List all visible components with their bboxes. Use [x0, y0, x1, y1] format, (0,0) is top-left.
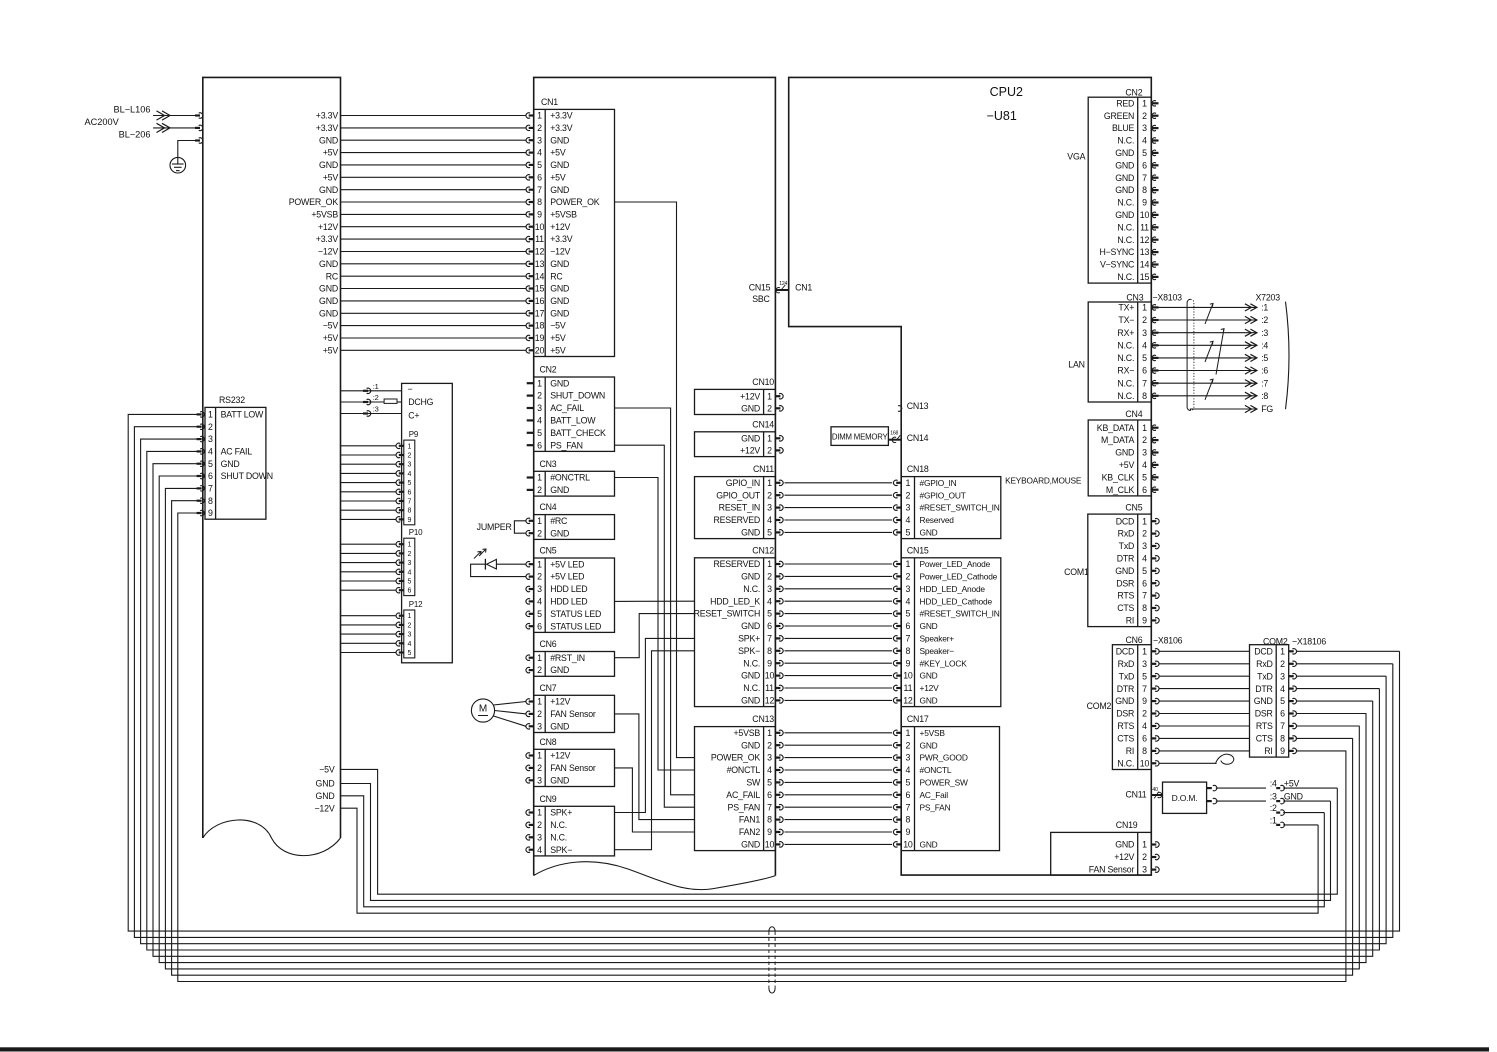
LED light arrows	[474, 552, 481, 559]
fan motor M1	[471, 699, 494, 722]
svg-text:2: 2	[537, 528, 542, 538]
svg-text:RTS: RTS	[1117, 591, 1134, 601]
svg-text:GND: GND	[741, 840, 760, 850]
svg-text:RESERVED: RESERVED	[713, 559, 760, 569]
connector CN1 (SBC main power)	[534, 109, 615, 356]
connector CN4 keyboard mouse (CPU2)	[1088, 420, 1151, 496]
connector RS232	[205, 407, 266, 519]
svg-text:DTR: DTR	[1117, 554, 1134, 564]
svg-text:GND: GND	[1284, 792, 1303, 802]
svg-text:GND: GND	[741, 696, 760, 706]
svg-text:BATT_CHECK: BATT_CHECK	[550, 428, 606, 438]
svg-text:2: 2	[767, 572, 772, 582]
svg-text:RxD: RxD	[1256, 659, 1273, 669]
svg-text:5: 5	[906, 528, 911, 538]
svg-text:GND: GND	[1115, 696, 1134, 706]
svg-text:3: 3	[1142, 865, 1147, 875]
svg-text:14: 14	[535, 271, 545, 281]
connector CN17 (CPU2 power control)	[901, 727, 999, 851]
svg-text:GND: GND	[920, 528, 938, 538]
svg-text:2: 2	[1142, 529, 1147, 539]
wire CN13 pin 4 to CN17 pin 4	[775, 769, 780, 771]
svg-text:BL−L106: BL−L106	[113, 105, 150, 115]
svg-text:+5VSB: +5VSB	[311, 210, 338, 220]
wire CN12 pin 4 to CN15 pin 4	[775, 600, 780, 602]
wire CN11 pin 4 to CN18 pin 4	[775, 519, 780, 521]
wire PSU to CN1 pin 16 (GND)	[341, 300, 527, 302]
svg-text:#ONCTRL: #ONCTRL	[550, 473, 590, 483]
svg-text:M_DATA: M_DATA	[1101, 435, 1135, 445]
svg-text:4: 4	[1142, 340, 1147, 350]
wire CN13 pin 1 to CN17 pin 1	[775, 732, 780, 734]
svg-text:FAN Sensor: FAN Sensor	[550, 709, 596, 719]
svg-text:POWER_OK: POWER_OK	[550, 197, 600, 207]
svg-text:STATUS LED: STATUS LED	[550, 609, 601, 619]
svg-text:+5V LED: +5V LED	[550, 572, 584, 582]
svg-text:7: 7	[906, 634, 911, 644]
wire CN11 pin 2 to CN18 pin 2	[775, 494, 780, 496]
svg-text:GND: GND	[920, 740, 938, 750]
svg-text:−: −	[408, 384, 413, 394]
wire CN9 pin1 SPK+ to CN12 pin7	[615, 638, 695, 812]
svg-text:CTS: CTS	[1117, 734, 1134, 744]
svg-text:2: 2	[537, 709, 542, 719]
wire LAN pin 3 to X7203 :3	[1151, 332, 1158, 334]
svg-text:N.C.: N.C.	[743, 658, 760, 668]
svg-text:GND: GND	[550, 185, 569, 195]
svg-text:PS_FAN: PS_FAN	[550, 440, 583, 450]
connector CN4 (SBC #RC)	[534, 515, 615, 540]
pigtail :2	[1276, 811, 1280, 813]
svg-text:9: 9	[407, 517, 411, 524]
svg-text:−X8103: −X8103	[1153, 293, 1183, 303]
svg-text:6: 6	[1142, 578, 1147, 588]
svg-text:1: 1	[1142, 646, 1147, 656]
svg-text:#GPIO_OUT: #GPIO_OUT	[920, 490, 966, 500]
svg-text:6: 6	[407, 489, 411, 496]
svg-text:COM2: COM2	[1087, 701, 1112, 711]
wire PSU to P10 pin 1	[341, 543, 396, 545]
svg-text:POWER_OK: POWER_OK	[289, 197, 339, 207]
svg-text:6: 6	[407, 588, 411, 595]
wire LAN FG shield	[1191, 409, 1257, 411]
bracket X7203	[1286, 302, 1290, 410]
svg-text:TX−: TX−	[1118, 315, 1134, 325]
svg-text:H−SYNC: H−SYNC	[1099, 247, 1135, 257]
wire LAN pin 1 to X7203 :1	[1151, 306, 1158, 308]
svg-text:COM1: COM1	[1064, 567, 1089, 577]
wire CN7 pin2 FAN Sensor to CN13 pin8 FAN1	[615, 714, 695, 820]
svg-text:3: 3	[1142, 448, 1147, 458]
svg-text:8: 8	[1142, 391, 1147, 401]
svg-text:9: 9	[208, 508, 213, 518]
wire RS232 pin 8 loop	[172, 501, 1353, 976]
svg-text:5: 5	[767, 528, 772, 538]
wire CN3 pin1 #ONCTRL to CN13 pin4	[615, 478, 695, 771]
wire PSU to CN1 pin 19 (+5V)	[341, 337, 527, 339]
svg-text:TxD: TxD	[1119, 671, 1135, 681]
connector CN14 (SBC 12V aux)	[695, 432, 776, 457]
svg-text:1: 1	[1142, 303, 1147, 313]
wire PSU to CN1 pin 8 (POWER_OK)	[341, 201, 527, 203]
svg-text:6: 6	[537, 621, 542, 631]
svg-text:14: 14	[1140, 260, 1150, 270]
svg-text::2: :2	[1270, 803, 1277, 813]
svg-text:1: 1	[537, 697, 542, 707]
wires D.O.M. to pigtail :4 +5V and :3 GND	[1207, 787, 1212, 789]
svg-text:FAN Sensor: FAN Sensor	[550, 763, 596, 773]
svg-text::2: :2	[1261, 315, 1268, 325]
svg-text:GND: GND	[550, 259, 569, 269]
svg-text:M_CLK: M_CLK	[1106, 485, 1135, 495]
wire PSU to CN1 pin 14 (RC)	[341, 275, 527, 277]
svg-text:3: 3	[1142, 328, 1147, 338]
svg-text:POWER_SW: POWER_SW	[920, 778, 968, 788]
wire LAN pin 2 to X7203 :2	[1151, 319, 1158, 321]
svg-text:−5V: −5V	[319, 765, 335, 775]
svg-text:RESET_SWITCH: RESET_SWITCH	[694, 609, 761, 619]
wire PSU −12V output	[341, 808, 1319, 913]
svg-text:SHUT_DOWN: SHUT_DOWN	[550, 391, 605, 401]
svg-text:AC_FAIL: AC_FAIL	[550, 403, 584, 413]
connector CN5 COM1 (CPU2)	[1088, 514, 1152, 627]
svg-text:4: 4	[537, 148, 542, 158]
wire PSU to CN1 pin 2 (+3.3V)	[341, 127, 527, 129]
svg-text:5: 5	[208, 459, 213, 469]
twisted pair marks	[1205, 303, 1213, 324]
svg-text:9: 9	[767, 827, 772, 837]
wire CN9 pin4 SPK- to CN12 pin8	[615, 651, 695, 850]
svg-text:N.C.: N.C.	[1117, 235, 1134, 245]
svg-text:6: 6	[1142, 160, 1147, 170]
svg-text:40: 40	[1152, 787, 1158, 793]
wire CN13 pin 5 to CN17 pin 5	[775, 781, 780, 783]
LED D1 (+5V LED)	[496, 563, 526, 565]
wire CN12 pin 11 to CN15 pin 11	[775, 687, 780, 689]
connector CN15/CN1 board-to-board link (124 pin)	[775, 289, 788, 291]
svg-text:CN17: CN17	[907, 714, 929, 724]
svg-text:CN3: CN3	[540, 459, 557, 469]
svg-text:9: 9	[1142, 696, 1147, 706]
svg-text:+12V: +12V	[920, 683, 940, 693]
LAN cable shield	[1187, 299, 1190, 410]
wire LAN pin 7 to X7203 :7	[1151, 382, 1158, 384]
connector CN7 (SBC fan 1)	[534, 695, 615, 732]
svg-text:DIMM MEMORY: DIMM MEMORY	[832, 432, 889, 441]
svg-text:CN14: CN14	[907, 433, 929, 443]
svg-text:GND: GND	[550, 485, 569, 495]
svg-text:P12: P12	[409, 600, 423, 609]
wire CN12 pin 7 to CN15 pin 7	[775, 637, 780, 639]
connector CN8 (SBC fan 2)	[534, 749, 615, 786]
svg-text:5: 5	[1142, 472, 1147, 482]
svg-text:CN15: CN15	[749, 283, 771, 293]
svg-text:N.C.: N.C.	[1117, 136, 1134, 146]
wire CN12 pin 8 to CN15 pin 8	[775, 650, 780, 652]
svg-text:1: 1	[906, 728, 911, 738]
svg-text:N.C.: N.C.	[550, 820, 567, 830]
svg-text:3: 3	[407, 560, 411, 567]
svg-text:9: 9	[767, 658, 772, 668]
wire CN13 pin 7 to CN17 pin 7	[775, 806, 780, 808]
wire PSU to CN1 pin 5 (GND)	[341, 164, 527, 166]
wire PSU to CN1 pin 18 (−5V)	[341, 325, 527, 327]
svg-text:1: 1	[537, 111, 542, 121]
svg-text::7: :7	[1261, 378, 1268, 388]
svg-text:GND: GND	[319, 284, 338, 294]
svg-text:CN13: CN13	[907, 401, 929, 411]
svg-text:KB_DATA: KB_DATA	[1097, 423, 1135, 433]
svg-text:6: 6	[1142, 366, 1147, 376]
svg-text:GND: GND	[1115, 448, 1134, 458]
wire CN12 pin 3 to CN15 pin 3	[775, 588, 780, 590]
wire RS232 pin 5 loop	[153, 464, 1373, 957]
svg-text:7: 7	[1142, 591, 1147, 601]
svg-text:2: 2	[767, 490, 772, 500]
svg-text:4: 4	[1142, 554, 1147, 564]
wire CN6 pin1 #RST_IN to CN12 pin5	[615, 614, 695, 658]
wire CN6 to X18106 DTR	[1151, 687, 1156, 689]
svg-text:TX+: TX+	[1118, 303, 1134, 313]
svg-text::8: :8	[1261, 391, 1268, 401]
wire LED cathode to CN5 pin2	[471, 564, 526, 576]
svg-text:1: 1	[767, 391, 772, 401]
svg-text:CN2: CN2	[1125, 88, 1142, 98]
wire PSU to P10 pin 2	[341, 552, 396, 554]
svg-text:GREEN: GREEN	[1104, 111, 1134, 121]
svg-text:CN15: CN15	[907, 545, 929, 555]
wire X18106 pin 2 to RS232 loop	[1289, 663, 1294, 665]
svg-text:CN1: CN1	[795, 283, 812, 293]
svg-text:10: 10	[765, 671, 775, 681]
svg-text:7: 7	[767, 802, 772, 812]
jumper across CN4 pins	[514, 521, 526, 533]
svg-text:2: 2	[407, 622, 411, 629]
svg-text::1: :1	[1270, 816, 1277, 826]
svg-text:GND: GND	[316, 791, 335, 801]
svg-text:6: 6	[1142, 485, 1147, 495]
svg-text:CN11: CN11	[1125, 790, 1146, 800]
svg-text:BATT LOW: BATT LOW	[221, 410, 264, 420]
svg-text:4: 4	[1142, 721, 1147, 731]
wire PSU to P9 pin 4	[341, 472, 396, 474]
wire CN12 pin 2 to CN15 pin 2	[775, 575, 780, 577]
svg-text:18: 18	[535, 321, 545, 331]
svg-text:#RESET_SWITCH_IN: #RESET_SWITCH_IN	[920, 609, 1000, 619]
svg-text:3: 3	[1142, 659, 1147, 669]
svg-text:8: 8	[1142, 746, 1147, 756]
svg-text:−12V: −12V	[318, 247, 338, 257]
svg-text::4: :4	[1261, 340, 1268, 350]
svg-text:3: 3	[1280, 671, 1285, 681]
svg-text:8: 8	[767, 815, 772, 825]
svg-text:P9: P9	[409, 430, 419, 439]
svg-text:6: 6	[767, 621, 772, 631]
svg-text:GND: GND	[1115, 840, 1134, 850]
svg-text:#RST_IN: #RST_IN	[550, 653, 585, 663]
svg-text:4: 4	[537, 416, 542, 426]
wire PSU to P12 pin 3	[341, 633, 396, 635]
svg-text:2: 2	[1142, 852, 1147, 862]
svg-text:COM2: COM2	[1263, 636, 1288, 646]
svg-text:1: 1	[537, 378, 542, 388]
svg-text:19: 19	[535, 333, 545, 343]
wire PSU to P12 pin 2	[341, 624, 396, 626]
wire PSU −5V output	[341, 769, 1338, 894]
svg-text:#ONCTL: #ONCTL	[727, 765, 761, 775]
svg-text:8: 8	[1142, 185, 1147, 195]
connector CN10 (SBC +12V out)	[695, 389, 776, 414]
svg-text:2: 2	[537, 820, 542, 830]
svg-text:9: 9	[1142, 616, 1147, 626]
svg-text::3: :3	[1261, 328, 1268, 338]
wire CN6 N.C. pin with open end	[1151, 762, 1156, 764]
connector CN11 (SBC GPIO)	[695, 477, 776, 539]
wire CN2 pin3 AC_FAIL to CN13 pin6	[615, 408, 695, 795]
svg-text:−12V: −12V	[315, 803, 335, 813]
wire CN1 pin8 POWER_OK to CN13 pin3	[615, 202, 695, 758]
svg-text:GND: GND	[741, 740, 760, 750]
fuse F1 on DCHG :2	[384, 399, 397, 403]
svg-text:SPK−: SPK−	[738, 646, 760, 656]
wire CN11 pin 1 to CN18 pin 1	[775, 482, 780, 484]
svg-text:2: 2	[537, 665, 542, 675]
svg-text:5: 5	[1142, 148, 1147, 158]
svg-text:+3.3V: +3.3V	[316, 111, 339, 121]
wire CN6 to X18106 RTS	[1151, 725, 1156, 727]
svg-text:RESET_IN: RESET_IN	[719, 503, 760, 513]
svg-text:CN2: CN2	[540, 365, 557, 375]
svg-text:4: 4	[537, 845, 542, 855]
svg-text:CN12: CN12	[752, 545, 774, 555]
svg-text:CN4: CN4	[540, 502, 557, 512]
cable bundle marker	[769, 927, 775, 932]
DIMM MEMORY module	[831, 427, 888, 446]
wire PSU to P9 pin 6	[341, 491, 396, 493]
svg-text:8: 8	[537, 197, 542, 207]
svg-text:4: 4	[767, 765, 772, 775]
connector CN19 fan (CPU2)	[1051, 832, 1152, 875]
svg-text:8: 8	[767, 646, 772, 656]
wire PSU to DCHG :2	[341, 401, 385, 403]
svg-text:5: 5	[537, 160, 542, 170]
svg-text:5: 5	[1142, 566, 1147, 576]
svg-text:8: 8	[1280, 734, 1285, 744]
wire PSU to CN1 pin 7 (GND)	[341, 189, 527, 191]
svg-text:11: 11	[1140, 222, 1149, 232]
svg-text:11: 11	[904, 683, 913, 693]
svg-text:3: 3	[537, 584, 542, 594]
connector CN3 (SBC #ONCTRL)	[534, 471, 615, 496]
svg-text:4: 4	[208, 447, 213, 457]
svg-text:1: 1	[407, 443, 411, 450]
wire PSU to P10 pin 4	[341, 571, 396, 573]
wire CN12 pin 12 to CN15 pin 12	[775, 699, 780, 701]
svg-text:1: 1	[767, 478, 772, 488]
svg-text:7: 7	[1142, 378, 1147, 388]
svg-text:GND: GND	[1115, 173, 1134, 183]
svg-text:+5V: +5V	[323, 148, 339, 158]
svg-text:N.C.: N.C.	[1117, 353, 1134, 363]
svg-text:5: 5	[1142, 671, 1147, 681]
svg-text:GND: GND	[550, 284, 569, 294]
svg-text:HDD_LED_K: HDD_LED_K	[710, 596, 760, 606]
svg-text:N.C.: N.C.	[1117, 758, 1134, 768]
svg-text:BATT_LOW: BATT_LOW	[550, 416, 596, 426]
connector CN6 COM2 (CPU2)	[1112, 645, 1151, 770]
svg-text:5: 5	[407, 579, 411, 586]
svg-text:16: 16	[535, 296, 545, 306]
wire PSU to DCHG :3	[341, 413, 402, 415]
svg-text:SBC: SBC	[752, 294, 770, 304]
wire CN13 pin 3 to CN17 pin 3	[775, 756, 780, 758]
svg-text::3: :3	[373, 405, 379, 414]
wire CN13 pin 9 to CN17 pin 9	[775, 831, 780, 833]
svg-text:1: 1	[1280, 646, 1285, 656]
svg-text:1: 1	[407, 542, 411, 549]
svg-text:1: 1	[537, 653, 542, 663]
PSU power-supply block	[203, 77, 341, 838]
wire CN6 to X18106 TxD	[1151, 675, 1156, 677]
svg-text:3: 3	[906, 753, 911, 763]
svg-text:PWR_GOOD: PWR_GOOD	[920, 753, 968, 763]
wire PSU to P9 pin 8	[341, 509, 396, 511]
svg-text:N.C.: N.C.	[1117, 391, 1134, 401]
svg-text:3: 3	[208, 434, 213, 444]
svg-text::1: :1	[373, 382, 379, 391]
svg-text:DTR: DTR	[1117, 684, 1134, 694]
svg-text:6: 6	[1142, 734, 1147, 744]
svg-text:1: 1	[537, 751, 542, 761]
wire CN6 to X18106 DCD	[1151, 650, 1156, 652]
connector CN2 VGA (CPU2)	[1088, 97, 1151, 283]
svg-text:+5V: +5V	[1119, 460, 1135, 470]
svg-text:FAN1: FAN1	[739, 815, 761, 825]
svg-text:2: 2	[1142, 111, 1147, 121]
svg-text:6: 6	[767, 790, 772, 800]
wire CN12 pin 10 to CN15 pin 10	[775, 674, 780, 676]
svg-text:HDD LED: HDD LED	[550, 584, 587, 594]
svg-text:DSR: DSR	[1116, 578, 1134, 588]
svg-text:GND: GND	[741, 528, 760, 538]
svg-text:3: 3	[767, 503, 772, 513]
pigtail :1	[1276, 824, 1280, 826]
svg-text:LAN: LAN	[1068, 360, 1085, 370]
wire X18106 pin 1 to RS232 loop	[1289, 650, 1294, 652]
connector CN6 (SBC reset)	[534, 652, 615, 677]
svg-text:−U81: −U81	[987, 109, 1017, 123]
wire PSU to CN1 pin 10 (+12V)	[341, 226, 527, 228]
wire PSU to CN1 pin 12 (−12V)	[341, 251, 527, 253]
svg-text:GND: GND	[550, 721, 569, 731]
wire PSU GND output	[341, 784, 1331, 901]
svg-text:13: 13	[1140, 247, 1150, 257]
connector P12 (battery pack)	[404, 610, 415, 658]
svg-text:4: 4	[407, 471, 411, 478]
svg-text:GND: GND	[920, 840, 938, 850]
svg-text:GND: GND	[319, 308, 338, 318]
wire CN13 pin 8 to CN17 pin 8	[775, 818, 780, 820]
svg-text:8: 8	[906, 646, 911, 656]
svg-text:10: 10	[903, 840, 913, 850]
svg-text:1: 1	[767, 433, 772, 443]
svg-text:10: 10	[1140, 210, 1150, 220]
svg-text:RX−: RX−	[1117, 366, 1134, 376]
svg-text:10: 10	[535, 222, 545, 232]
svg-text:1: 1	[767, 559, 772, 569]
svg-text:RS232: RS232	[219, 395, 245, 405]
svg-text:STATUS LED: STATUS LED	[550, 621, 601, 631]
